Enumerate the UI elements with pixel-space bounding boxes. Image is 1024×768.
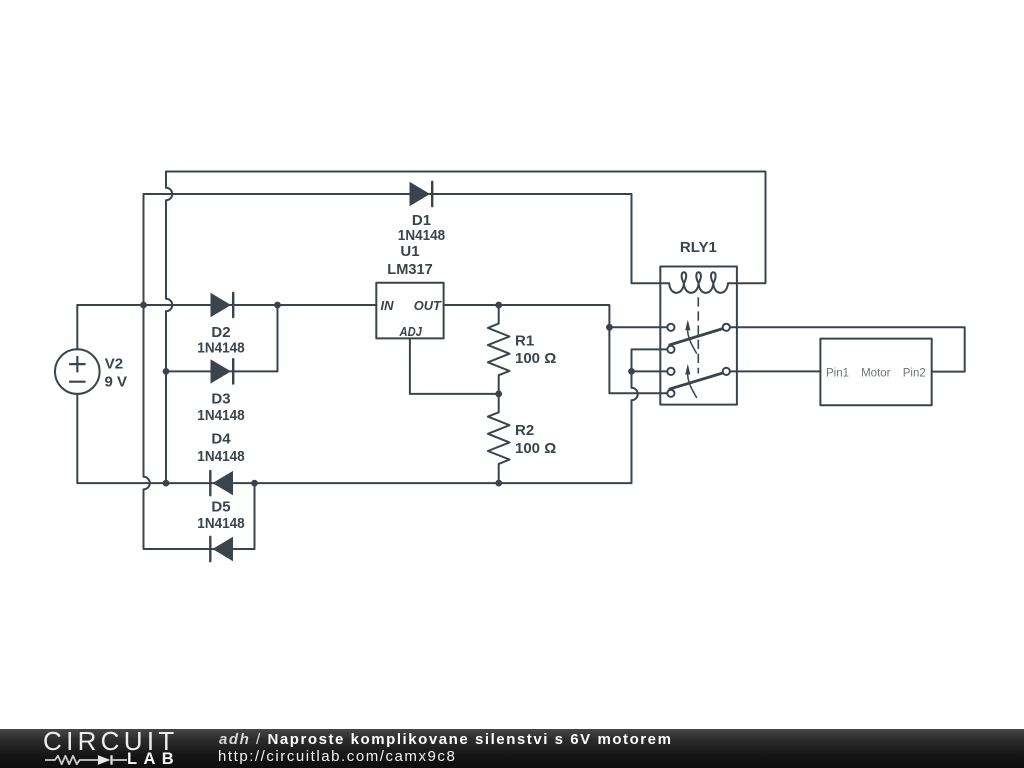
svg-text:Pin1: Pin1	[826, 367, 849, 379]
svg-text:D5: D5	[211, 499, 230, 516]
svg-text:IN: IN	[381, 298, 395, 313]
svg-text:R1: R1	[515, 333, 534, 350]
svg-text:9 V: 9 V	[105, 373, 128, 390]
svg-text:D2: D2	[211, 324, 230, 341]
svg-text:OUT: OUT	[414, 298, 442, 313]
svg-text:1N4148: 1N4148	[197, 448, 244, 465]
svg-text:U1: U1	[400, 243, 419, 260]
svg-text:RLY1: RLY1	[680, 239, 717, 256]
svg-text:D3: D3	[211, 391, 230, 408]
svg-text:1N4148: 1N4148	[197, 407, 244, 424]
svg-text:R2: R2	[515, 422, 534, 439]
svg-text:100 Ω: 100 Ω	[515, 350, 556, 367]
svg-text:LM317: LM317	[387, 261, 432, 278]
svg-text:V2: V2	[105, 355, 123, 372]
svg-text:ADJ: ADJ	[399, 324, 423, 339]
svg-text:1N4148: 1N4148	[398, 227, 445, 244]
svg-text:D4: D4	[211, 431, 231, 448]
svg-text:Pin2: Pin2	[903, 367, 926, 379]
svg-text:1N4148: 1N4148	[197, 340, 244, 357]
svg-text:Motor: Motor	[861, 367, 891, 379]
svg-text:100 Ω: 100 Ω	[515, 440, 556, 457]
svg-text:1N4148: 1N4148	[197, 515, 244, 532]
